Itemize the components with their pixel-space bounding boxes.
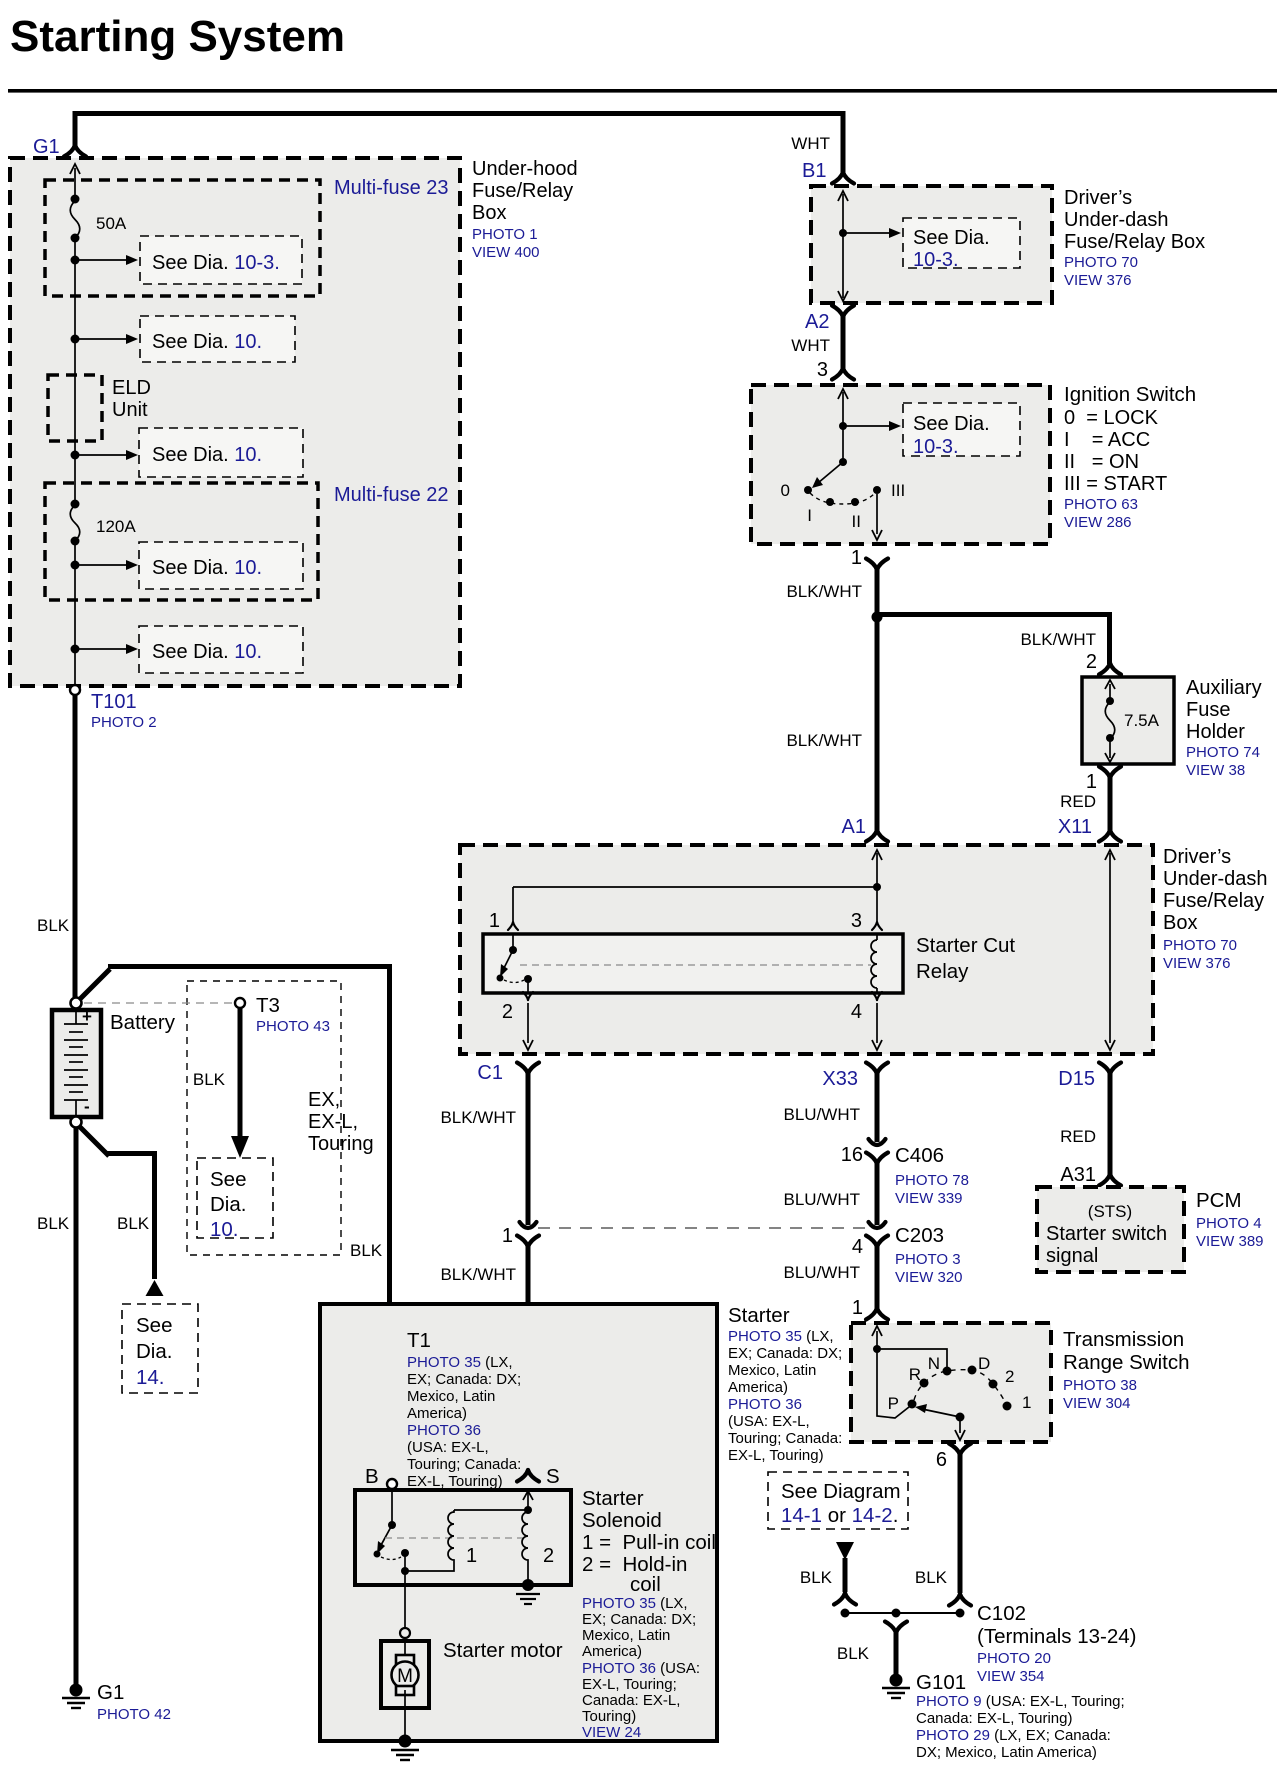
node C1 claw [517,1063,539,1075]
svg-text:BLK/WHT: BLK/WHT [440,1265,516,1284]
svg-text:Fuse/Relay: Fuse/Relay [472,180,573,202]
svg-text:Multi-fuse 23: Multi-fuse 23 [334,177,449,199]
claw above C102 right [949,1594,971,1606]
svg-text:G1: G1 [97,1681,124,1704]
wire aux fuse to X11 [1108,777,1113,830]
svg-text:-: - [84,1097,90,1116]
svg-text:14-1 or 14-2.: 14-1 or 14-2. [781,1504,898,1527]
arrow from See Diagram [836,1542,854,1560]
wire A1 entry inside box [842,193,844,195]
svg-text:BLK: BLK [193,1070,226,1089]
svg-text:coil: coil [630,1573,661,1596]
svg-text:BLK/WHT: BLK/WHT [786,582,862,601]
svg-text:PHOTO 70: PHOTO 70 [1064,254,1138,271]
svg-text:EX; Canada: DX;: EX; Canada: DX; [582,1611,696,1628]
pin 2 connector claw aux fuse [1099,663,1121,675]
starter solenoid box [355,1490,571,1585]
pin A31 claw [1099,1174,1121,1186]
svg-text:10.: 10. [210,1218,239,1241]
svg-text:2: 2 [1005,1367,1014,1386]
wire A2 to ignition switch [841,316,846,368]
svg-text:(USA: EX-L,: (USA: EX-L, [407,1439,489,1456]
svg-text:(STS): (STS) [1088,1202,1132,1221]
svg-text:1: 1 [852,1297,863,1319]
svg-text:See Diagram: See Diagram [781,1480,901,1503]
claw below C102 [885,1622,907,1634]
wire C1 to C203 [526,1072,531,1225]
wire arrow to See Dia 10-3 [843,425,890,427]
svg-text:Under-hood: Under-hood [472,158,578,180]
svg-text:Fuse/Relay: Fuse/Relay [1163,890,1264,912]
svg-text:Starter: Starter [728,1304,790,1327]
pin 4 claw [872,992,882,1000]
svg-text:EX; Canada: DX;: EX; Canada: DX; [728,1345,842,1362]
terminal B [387,1479,397,1489]
pin 2 claw [523,992,533,1000]
junction [71,256,80,265]
motor ground [399,1735,412,1748]
node A2 connector claw [832,306,854,318]
svg-text:D15: D15 [1058,1068,1095,1090]
See Dia. 10. box [139,542,303,589]
svg-text:PHOTO 38: PHOTO 38 [1063,1377,1137,1394]
connector C102 bus [845,1612,960,1614]
svg-text:PHOTO 29 (LX, EX; Canada:: PHOTO 29 (LX, EX; Canada: [916,1727,1111,1744]
svg-text:EX-L, Touring): EX-L, Touring) [728,1447,824,1464]
svg-text:PHOTO 36: PHOTO 36 [407,1422,481,1439]
wire pin4 to X33 [876,1003,878,1043]
svg-text:3: 3 [851,910,862,932]
svg-text:1 = Pull-in coil: 1 = Pull-in coil [582,1531,716,1554]
svg-text:DX; Mexico, Latin America): DX; Mexico, Latin America) [916,1744,1097,1761]
svg-text:P: P [888,1394,899,1413]
svg-text:Auxiliary: Auxiliary [1186,677,1262,699]
hold-in coil 2 [522,1512,528,1580]
starter assembly box [320,1304,717,1741]
svg-text:M: M [397,1666,413,1687]
svg-text:Box: Box [472,202,506,224]
svg-text:BLU/WHT: BLU/WHT [784,1263,861,1282]
pin 6 claw [949,1444,971,1456]
svg-text:VIEW 38: VIEW 38 [1186,762,1245,779]
node B1 connector claw [832,172,854,184]
TRS exit wire [959,1417,961,1433]
svg-text:I = ACC: I = ACC [1064,429,1150,451]
driver's under-dash fuse/relay box (top) [811,186,1052,303]
See Dia. 10-3. box [140,236,302,284]
svg-text:PHOTO 3: PHOTO 3 [895,1251,961,1268]
svg-text:BLK: BLK [915,1568,948,1587]
svg-text:Transmission: Transmission [1063,1328,1184,1351]
battery [52,1010,101,1117]
svg-text:PHOTO 20: PHOTO 20 [977,1650,1051,1667]
svg-text:1: 1 [1022,1393,1031,1412]
svg-text:Relay: Relay [916,960,969,983]
svg-text:Driver’s: Driver’s [1064,187,1132,209]
svg-text:X11: X11 [1058,816,1092,838]
PCM box [1037,1187,1184,1272]
transmission range switch box [851,1323,1051,1442]
svg-text:Starter motor: Starter motor [443,1639,563,1662]
T3 dashed region [187,981,341,1255]
junction [839,229,847,237]
S wire inside [527,1490,529,1510]
svg-text:PHOTO 43: PHOTO 43 [256,1018,330,1035]
svg-text:PHOTO 42: PHOTO 42 [97,1706,171,1723]
svg-text:2: 2 [543,1545,554,1567]
starter motor [381,1641,429,1708]
svg-text:A1: A1 [842,816,866,838]
junction [71,561,80,570]
svg-text:G101: G101 [916,1671,966,1694]
svg-text:Touring): Touring) [582,1708,636,1725]
svg-text:Holder: Holder [1186,721,1245,743]
See Dia. 10. box [139,626,303,673]
pin 1 claw TRS [866,1308,888,1320]
svg-text:WHT: WHT [791,336,830,355]
svg-text:A31: A31 [1060,1164,1096,1186]
svg-text:II: II [852,512,861,531]
svg-text:BLK: BLK [837,1644,870,1663]
wire C203 to S terminal [526,1245,531,1472]
svg-text:EX-L, Touring;: EX-L, Touring; [582,1676,677,1693]
svg-text:VIEW 24: VIEW 24 [582,1724,641,1741]
wire battery- to G1 ground [74,1128,79,1686]
svg-text:WHT: WHT [791,134,830,153]
connector C406 [869,1139,886,1145]
svg-text:See Dia. 10.: See Dia. 10. [152,444,262,466]
svg-text:PHOTO 70: PHOTO 70 [1163,937,1237,954]
svg-text:D: D [978,1354,990,1373]
TRS rotor arm [922,1409,960,1417]
relay switch [512,934,514,948]
svg-text:7.5A: 7.5A [1124,711,1160,730]
See Dia. 10-3. box [903,403,1020,456]
wire C406 to C203 [875,1162,880,1225]
battery positive terminal [71,998,82,1009]
svg-text:PHOTO 63: PHOTO 63 [1064,496,1138,513]
relay coil [876,934,878,993]
svg-text:BLK: BLK [800,1568,833,1587]
svg-text:VIEW 304: VIEW 304 [1063,1395,1131,1412]
svg-text:III: III [891,481,905,500]
wire: main bus inside under-hood box [74,168,76,690]
TRS contact dashed arc [914,1370,1005,1402]
ignition switch box [751,385,1050,544]
svg-text:Mexico, Latin: Mexico, Latin [728,1362,816,1379]
svg-text:Touring; Canada:: Touring; Canada: [407,1456,521,1473]
svg-text:VIEW 320: VIEW 320 [895,1269,963,1286]
junction [839,422,847,430]
solenoid switch [391,1490,393,1523]
svg-text:Mexico, Latin: Mexico, Latin [407,1388,495,1405]
svg-text:Fuse/Relay Box: Fuse/Relay Box [1064,231,1205,253]
fuse 50A [71,195,80,204]
svg-text:G1: G1 [33,136,60,158]
svg-text:BLU/WHT: BLU/WHT [784,1190,861,1209]
wire arrow to See Dia 10 [75,564,127,566]
svg-text:VIEW 376: VIEW 376 [1064,272,1132,289]
motor terminal [400,1628,410,1638]
svg-text:Starter: Starter [582,1487,644,1510]
svg-text:VIEW 400: VIEW 400 [472,244,540,261]
TRS path to P [877,1349,909,1418]
svg-text:T1: T1 [407,1329,431,1352]
wire ignition to A1 with aux branch [877,569,1112,830]
svg-text:See Dia.: See Dia. [913,227,990,249]
svg-text:4: 4 [851,1001,862,1023]
svg-text:VIEW 286: VIEW 286 [1064,514,1132,531]
svg-text:BLK: BLK [37,916,70,935]
svg-text:PHOTO 78: PHOTO 78 [895,1172,969,1189]
svg-text:RED: RED [1060,1127,1096,1146]
wire solenoid to motor [404,1571,406,1628]
fuse 7.5A [1109,684,1111,758]
svg-text:See Dia. 10-3.: See Dia. 10-3. [152,252,280,274]
wire III to pin 1 [876,494,878,534]
svg-text:PHOTO 35 (LX,: PHOTO 35 (LX, [407,1354,513,1371]
svg-text:BLK: BLK [350,1241,383,1260]
node G1 connector claw [64,145,86,157]
wire arrow to See Dia 10-3 [75,259,127,261]
wire arrow to See Dia 10 [75,454,127,456]
svg-text:VIEW 339: VIEW 339 [895,1190,963,1207]
svg-text:2: 2 [502,1001,513,1023]
relay mechanical link [520,964,871,966]
multi-fuse 23 box [45,180,320,296]
pin 1 connector claw [866,559,888,571]
svg-text:Solenoid: Solenoid [582,1509,662,1532]
C203 dashed connector line [538,1227,866,1229]
svg-text:S: S [546,1465,560,1488]
TRS path to N [877,1349,947,1367]
svg-text:Unit: Unit [112,399,148,421]
svg-text:Battery: Battery [110,1011,176,1034]
svg-text:A2: A2 [805,311,829,333]
svg-text:6: 6 [936,1449,947,1471]
terminal T3 [235,998,245,1008]
ignition rotor arm [839,458,847,466]
wire inside driver's box top [842,194,844,298]
svg-text:3: 3 [817,359,828,381]
svg-text:C102: C102 [977,1602,1026,1625]
svg-text:PHOTO 35 (LX,: PHOTO 35 (LX, [582,1595,688,1612]
ignition contacts 0 I II III [804,486,812,494]
svg-text:America): America) [728,1379,788,1396]
svg-text:PHOTO 74: PHOTO 74 [1186,744,1260,761]
svg-text:Mexico, Latin: Mexico, Latin [582,1627,670,1644]
wire arrow to See Dia 10-3 [843,232,890,234]
svg-text:PHOTO 9 (USA: EX-L, Touring;: PHOTO 9 (USA: EX-L, Touring; [916,1693,1125,1710]
wire C203 to transmission range switch [875,1245,880,1310]
svg-text:PCM: PCM [1196,1189,1242,1212]
wire T3 down arrow [238,1008,243,1138]
arrow into See Dia 14 [146,1280,164,1296]
wire: battery feed G1 to B1 top run [73,111,846,172]
svg-text:Starter Cut: Starter Cut [916,934,1015,957]
wire arrow to See Dia 10 [75,338,127,340]
dashed link battery to T3 [84,1002,233,1004]
connector C203 on X33 wire [869,1222,886,1228]
svg-text:Touring; Canada:: Touring; Canada: [728,1430,842,1447]
svg-text:PHOTO 1: PHOTO 1 [472,226,538,243]
svg-text:PHOTO 4: PHOTO 4 [1196,1215,1262,1232]
svg-text:Fuse: Fuse [1186,699,1230,721]
claw above C102 left [834,1593,856,1605]
svg-text:EX-L, Touring): EX-L, Touring) [407,1473,503,1490]
battery negative terminal [71,1117,82,1128]
wire C102 to G101 [894,1631,899,1676]
svg-text:I: I [807,506,812,525]
svg-text:See Dia. 10.: See Dia. 10. [152,557,262,579]
svg-text:+: + [82,1007,92,1026]
svg-text:See: See [136,1314,172,1337]
pin arrow into box at G1 [70,164,80,174]
svg-text:0 = LOCK: 0 = LOCK [1064,407,1159,429]
wire D15 to A31 [1108,1072,1113,1176]
svg-text:T101: T101 [91,691,137,713]
starter cut relay box [483,934,903,993]
svg-text:Driver’s: Driver’s [1163,846,1231,868]
svg-text:50A: 50A [96,214,127,233]
svg-text:Touring: Touring [308,1133,374,1155]
svg-text:Starting System: Starting System [10,12,345,61]
svg-text:C203: C203 [895,1224,944,1247]
svg-text:Box: Box [1163,912,1197,934]
wire arrow to See Dia 10 [75,648,127,650]
svg-text:1: 1 [502,1225,513,1247]
See Dia. 10. box [139,428,303,477]
svg-text:Range Switch: Range Switch [1063,1351,1189,1374]
svg-text:EX-L,: EX-L, [308,1111,358,1133]
wire battery+ to starter B feed [79,967,392,1481]
svg-text:Starter switch: Starter switch [1046,1223,1167,1245]
svg-text:2: 2 [1086,651,1097,673]
svg-text:VIEW 376: VIEW 376 [1163,955,1231,972]
svg-text:1: 1 [489,910,500,932]
svg-text:America): America) [582,1643,642,1660]
coil top link [454,1509,528,1511]
terminal T101 [70,685,80,695]
svg-text:America): America) [407,1405,467,1422]
svg-text:Dia.: Dia. [136,1340,172,1363]
svg-text:120A: 120A [96,517,136,536]
svg-text:VIEW 354: VIEW 354 [977,1668,1045,1685]
pull-in coil 1 [405,1510,454,1571]
svg-text:B: B [365,1465,379,1488]
svg-text:See Dia. 10.: See Dia. 10. [152,331,262,353]
wire X11 to D15 pass-through [1109,853,1111,1043]
title rule [8,89,1277,93]
svg-text:ELD: ELD [112,377,151,399]
wire X33 to C406 [875,1072,880,1142]
junction [872,612,883,623]
svg-text:PHOTO 2: PHOTO 2 [91,714,157,731]
node D15 claw [1099,1063,1121,1075]
svg-text:4: 4 [852,1236,863,1258]
node X33 claw [866,1063,888,1075]
svg-text:PHOTO 35 (LX,: PHOTO 35 (LX, [728,1328,834,1345]
svg-text:10-3.: 10-3. [913,436,959,458]
svg-text:PHOTO 36: PHOTO 36 [728,1396,802,1413]
junction pin1 link [873,883,881,891]
svg-text:See Dia. 10.: See Dia. 10. [152,641,262,663]
svg-text:Canada: EX-L, Touring): Canada: EX-L, Touring) [916,1710,1072,1727]
wire See Diagram to C102 [843,1558,848,1592]
svg-text:C406: C406 [895,1144,944,1167]
svg-text:RED: RED [1060,792,1096,811]
solenoid mech dashed link [385,1537,528,1539]
wire pin2 to C1 [527,1003,529,1043]
svg-text:BLK: BLK [37,1214,70,1233]
pin 3 connector claw [832,368,854,380]
driver's under-dash fuse/relay box (lower) [460,845,1153,1054]
svg-text:B1: B1 [802,160,826,182]
junction [71,335,80,344]
pin 1 claw [508,922,518,930]
wire to relay pin 1 [513,887,877,921]
node X11 claw [1099,830,1121,842]
connector C203 on C1 wire [520,1222,537,1228]
svg-text:See: See [210,1168,246,1191]
svg-text:PHOTO 36 (USA:: PHOTO 36 (USA: [582,1660,700,1677]
See Dia. 10. box under T3 [197,1158,273,1238]
ground G1 [70,1684,83,1697]
wire contact to motor node [404,1553,406,1571]
pin 3 claw [872,922,882,930]
svg-text:C1: C1 [477,1062,503,1084]
svg-text:1: 1 [466,1545,477,1567]
svg-text:1: 1 [851,547,862,569]
svg-text:EX; Canada: DX;: EX; Canada: DX; [407,1371,521,1388]
TRS entry wire [876,1331,878,1349]
svg-text:(USA: EX-L,: (USA: EX-L, [728,1413,810,1430]
svg-text:See Dia.: See Dia. [913,413,990,435]
svg-text:10-3.: 10-3. [913,249,959,271]
contact arc dashed [810,493,875,504]
svg-text:Under-dash: Under-dash [1163,868,1268,890]
junction [71,645,80,654]
See Dia. 10-3. box [903,218,1020,268]
node A1 claw [866,830,888,842]
svg-text:BLK: BLK [117,1214,150,1233]
svg-text:Under-dash: Under-dash [1064,209,1169,231]
svg-text:Ignition Switch: Ignition Switch [1064,383,1196,406]
multi-fuse 22 box [45,483,318,600]
solenoid coil ground [522,1579,534,1591]
See Dia. 10. box [140,316,295,362]
under-hood fuse/relay box [10,158,460,686]
svg-text:Canada: EX-L,: Canada: EX-L, [582,1692,680,1709]
svg-text:III = START: III = START [1064,473,1167,495]
svg-text:BLK/WHT: BLK/WHT [1020,630,1096,649]
wire inside ignition box [842,392,844,462]
svg-text:Multi-fuse 22: Multi-fuse 22 [334,484,449,506]
svg-text:T3: T3 [256,994,280,1017]
See Diagram 14-1 or 14-2 box [768,1472,908,1529]
wire T101 to battery [73,695,78,998]
junction [71,451,80,460]
svg-text:16: 16 [841,1144,863,1166]
ELD unit box [48,375,102,441]
wire TRS to C102 [958,1453,963,1593]
svg-text:14.: 14. [136,1366,165,1389]
auxiliary fuse holder box [1082,677,1174,764]
svg-text:0: 0 [781,481,790,500]
svg-text:BLK/WHT: BLK/WHT [786,731,862,750]
svg-text:II = ON: II = ON [1064,451,1139,473]
svg-text:N: N [928,1354,940,1373]
